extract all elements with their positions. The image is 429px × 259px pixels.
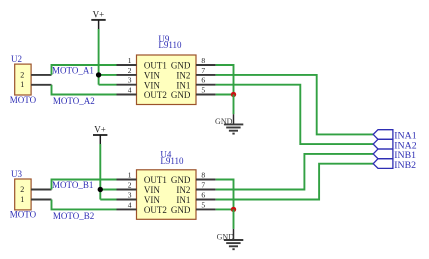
U9 pin 3 (117, 76, 137, 85)
svg-text:IN2: IN2 (176, 71, 190, 81)
U9 pin 2 (117, 66, 137, 75)
wire V+ vertical to junction (98, 29, 100, 85)
ground symbol (top) (215, 114, 243, 133)
svg-text:IN1: IN1 (176, 80, 190, 90)
wire U9 pin 7 to port INA1 (216, 75, 374, 134)
svg-text:GND: GND (215, 117, 233, 126)
U9 pin 8 (196, 56, 216, 65)
net MOTO_B1 wire (52, 180, 117, 191)
svg-text:GND: GND (171, 205, 191, 215)
wire U4 pin 7 to port INB1 (216, 154, 374, 190)
svg-text:VIN: VIN (144, 185, 160, 195)
svg-text:MOTO_B1: MOTO_B1 (52, 180, 93, 190)
op IC U4 L9110 (137, 150, 197, 220)
port INB2 (373, 159, 416, 171)
wire V+ to U4 pin 3 (100, 199, 116, 201)
svg-text:5: 5 (201, 86, 205, 95)
svg-text:7: 7 (201, 66, 205, 75)
svg-text:V+: V+ (94, 125, 106, 135)
svg-text:V+: V+ (93, 10, 105, 20)
svg-text:3: 3 (128, 76, 132, 85)
wire U4 pin 8 to GND net (216, 180, 234, 210)
wire V+ to U9 pin 3 (99, 84, 117, 86)
wire U4 pin 6 to port INB2 (216, 164, 374, 200)
U4 pin 7 (196, 180, 216, 189)
U4 pin 3 (117, 190, 137, 199)
U9 pin 4 (117, 86, 137, 95)
U9 pin 6 (196, 76, 216, 85)
wire GND drop (233, 95, 235, 115)
port INA1 (373, 130, 417, 142)
svg-text:OUT1: OUT1 (144, 175, 167, 185)
junction (red) at GND net (231, 92, 236, 97)
svg-text:8: 8 (201, 56, 205, 65)
svg-text:1: 1 (128, 170, 132, 179)
svg-text:5: 5 (201, 200, 205, 209)
svg-text:6: 6 (201, 190, 205, 199)
svg-text:IN2: IN2 (176, 185, 190, 195)
svg-text:MOTO_A2: MOTO_A2 (53, 96, 95, 106)
U2 pin 1 stub (31, 84, 51, 86)
svg-text:4: 4 (128, 200, 132, 209)
U9 pin 7 (196, 66, 216, 75)
U4 pin 1 (117, 170, 137, 179)
svg-text:2: 2 (20, 185, 24, 194)
connector U2 (10, 54, 37, 105)
svg-text:VIN: VIN (144, 80, 160, 90)
U9 pin 1 (117, 56, 137, 65)
svg-text:GND: GND (171, 90, 191, 100)
wire V+ vertical to junction (bottom) (99, 144, 101, 200)
svg-text:IN1: IN1 (176, 195, 190, 205)
svg-text:6: 6 (201, 76, 205, 85)
svg-text:1: 1 (20, 80, 24, 89)
wire U9 pin 6 to port INA2 (216, 85, 374, 144)
svg-text:U3: U3 (11, 169, 22, 179)
wire U9 pin 5 to GND net (216, 94, 234, 96)
svg-text:L9110: L9110 (160, 156, 184, 166)
op IC U9 L9110 (137, 34, 197, 105)
U2 pin 2 stub (31, 74, 51, 76)
svg-text:VIN: VIN (144, 71, 160, 81)
junction (black) at V+ / pin2 (96, 72, 101, 77)
svg-text:U2: U2 (11, 54, 22, 64)
junction (red) at GND net (bottom) (231, 207, 236, 212)
svg-text:2: 2 (20, 70, 24, 79)
svg-text:MOTO_B2: MOTO_B2 (53, 211, 94, 221)
port INB1 (373, 149, 416, 161)
svg-text:MOTO: MOTO (10, 210, 37, 220)
svg-text:MOTO_A1: MOTO_A1 (52, 65, 94, 75)
svg-text:OUT2: OUT2 (144, 90, 167, 100)
svg-text:4: 4 (128, 86, 132, 95)
net MOTO_B2 wire (52, 200, 117, 222)
svg-text:INB2: INB2 (394, 160, 416, 171)
U4 pin 5 (196, 200, 216, 209)
svg-text:OUT2: OUT2 (144, 205, 167, 215)
svg-text:8: 8 (201, 170, 205, 179)
power V+ symbol (bottom) (93, 125, 107, 144)
svg-text:1: 1 (20, 195, 24, 204)
svg-text:7: 7 (201, 180, 205, 189)
U3 pin 2 stub (31, 189, 51, 191)
U3 pin 1 stub (31, 199, 51, 201)
svg-text:L9110: L9110 (158, 40, 182, 50)
power V+ symbol (top) (91, 10, 105, 29)
svg-text:1: 1 (128, 56, 132, 65)
U4 pin 8 (196, 170, 216, 179)
svg-text:2: 2 (128, 66, 132, 75)
svg-text:3: 3 (128, 190, 132, 199)
net MOTO_A2 wire (52, 85, 117, 106)
U4 pin 2 (117, 180, 137, 189)
net MOTO_A1 wire (52, 65, 117, 75)
wire GND drop (bottom) (233, 209, 235, 229)
junction (black) at V+ / U4 pin2 (98, 187, 103, 192)
wire U4 pin 5 to GND net (216, 208, 234, 210)
ground symbol (bottom) (217, 229, 244, 249)
svg-text:GND: GND (171, 61, 191, 71)
wire V+ to U9 pin 2 (99, 74, 117, 76)
svg-text:2: 2 (128, 180, 132, 189)
svg-text:OUT1: OUT1 (144, 61, 167, 71)
U4 pin 4 (117, 200, 137, 209)
U9 pin 5 (196, 86, 216, 95)
svg-text:GND: GND (171, 175, 191, 185)
port INA2 (373, 139, 417, 151)
U4 pin 6 (196, 190, 216, 199)
svg-text:MOTO: MOTO (10, 95, 37, 105)
svg-text:GND: GND (217, 232, 235, 241)
wire V+ to U4 pin 2 (100, 189, 116, 191)
svg-text:VIN: VIN (144, 195, 160, 205)
wire U9 pin 8 to GND net (216, 65, 234, 95)
connector U3 (10, 169, 37, 220)
